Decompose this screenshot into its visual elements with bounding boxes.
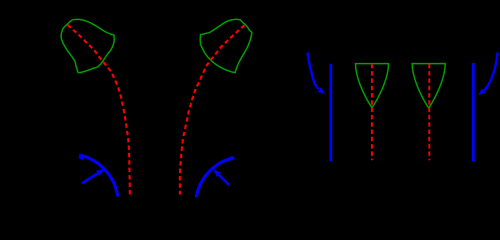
green parabolic cup 2 <box>412 64 445 109</box>
red dashed axis of cup 2 <box>428 64 430 160</box>
flux tube bell outline 1 (left, tilted right) <box>61 19 114 72</box>
straight pointer arrow left <box>82 173 99 184</box>
red dashed field line axis 2 <box>180 25 245 194</box>
flux tube bell outline 2 (right, tilted left) <box>200 19 252 72</box>
green parabolic cup 1 <box>356 64 389 108</box>
arrowhead on right flow arc <box>230 156 235 161</box>
arrowhead on left flow arc <box>78 155 84 160</box>
straight pointer arrow right <box>219 175 229 185</box>
arrowhead of left pointer <box>96 169 104 176</box>
blue flow arc right <box>196 158 232 196</box>
arrowhead of left curved arrow <box>318 87 325 94</box>
blue flow arc left <box>81 155 118 195</box>
curved arrow toward right field line <box>484 52 498 90</box>
curved arrow toward left field line <box>308 52 319 89</box>
blue field line left (right diagram) <box>329 64 332 161</box>
arrowhead of right curved arrow <box>478 88 485 95</box>
red dashed axis of cup 1 <box>371 64 373 160</box>
blue field line right (right diagram) <box>472 63 475 161</box>
red dashed field line axis 1 <box>68 25 130 195</box>
arrowhead of right pointer <box>213 169 221 177</box>
